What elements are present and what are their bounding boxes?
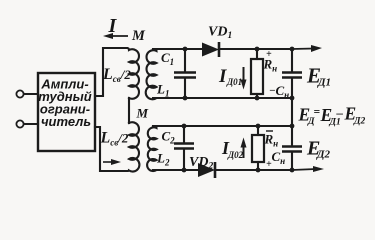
capacitor C2 <box>174 124 194 173</box>
wire <box>24 93 38 95</box>
svg-text:I: I <box>218 66 227 87</box>
svg-text:Д02: Д02 <box>227 150 244 160</box>
inductor Lsv/2 lower half winding <box>127 122 139 171</box>
wire top rail right <box>219 48 292 50</box>
inductor L2 <box>147 126 156 171</box>
capacitor Cn bottom (on right rail) <box>282 126 302 172</box>
capacitor Cn top (on right rail) <box>282 47 302 101</box>
terminal input 1 <box>16 90 23 97</box>
terminal input 2 <box>16 120 23 127</box>
amplitude limiter block <box>38 73 95 151</box>
bottom rail right <box>215 169 292 171</box>
resistor Rn top <box>251 47 263 101</box>
wire middle of primary <box>128 98 130 123</box>
middle rail top section <box>153 97 292 99</box>
formula E_D = E_D1 - E_D2 <box>298 104 366 128</box>
arrow under lower label <box>103 159 121 165</box>
svg-text:–: – <box>269 85 275 96</box>
svg-text:Д01: Д01 <box>226 77 242 87</box>
rail bottom-section top <box>153 125 292 127</box>
resistor Rn bottom <box>252 124 264 173</box>
svg-text:+: + <box>266 159 272 170</box>
svg-text:Д2: Д2 <box>316 149 331 161</box>
diode VD1 <box>202 42 219 57</box>
inductor Lsv/2 upper half winding <box>127 48 139 99</box>
svg-text:читель: читель <box>41 114 91 129</box>
svg-text:M: M <box>131 28 146 44</box>
capacitor C1 <box>174 47 196 101</box>
right rail link <box>291 98 293 126</box>
wire box to primary bottom <box>95 127 127 171</box>
svg-text:M: M <box>136 106 149 121</box>
wire <box>24 123 38 125</box>
svg-text:=: = <box>314 107 321 119</box>
current I arrow (left) <box>103 33 128 39</box>
svg-text:Д1: Д1 <box>317 77 331 89</box>
wire top rail left (tank to diode) <box>153 48 202 50</box>
inductor L1 <box>146 49 157 99</box>
label -Rn (overline) <box>266 130 273 132</box>
svg-text:–: – <box>336 105 344 120</box>
arrow I_D01 (down) <box>241 67 247 90</box>
output arrow bottom <box>292 166 324 172</box>
diode VD2 <box>198 162 215 178</box>
arrow I_D02 (up) <box>241 138 247 159</box>
wire box to primary top <box>95 48 127 96</box>
bottom rail left (tank to diode) <box>153 169 198 171</box>
svg-text:Д2: Д2 <box>353 117 365 127</box>
output arrow top <box>292 45 322 52</box>
svg-text:Д: Д <box>307 117 315 127</box>
